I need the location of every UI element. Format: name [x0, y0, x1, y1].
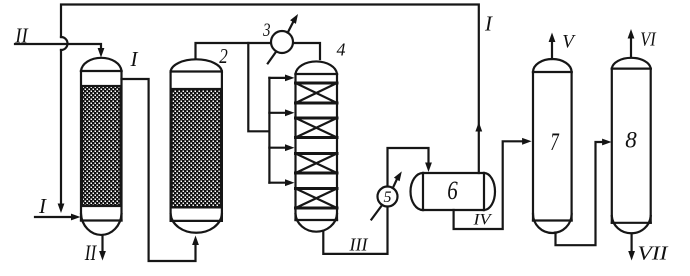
svg-text:III: III	[349, 235, 369, 255]
svg-text:V: V	[562, 32, 576, 53]
svg-text:7: 7	[550, 129, 560, 156]
wire: column 7 overhead stream V	[551, 42, 553, 59]
wire: feed branch into column 4 at y=148	[269, 147, 286, 149]
column 4 (packed column)	[296, 61, 338, 231]
wire: stream II feed line into reactor 1 top	[15, 44, 101, 49]
svg-text:II: II	[14, 24, 28, 48]
wire: feed branch into column 4 at y=183	[269, 182, 286, 184]
arrow: stream II into reactor 1 top	[98, 48, 105, 58]
svg-text:6: 6	[447, 176, 458, 205]
svg-text:4: 4	[337, 40, 346, 60]
column 4 packing section 118-138	[296, 118, 338, 138]
wire: reactor 2 top outlet to heater 3 and to column 4 top	[196, 43, 321, 59]
svg-text:5: 5	[384, 189, 392, 206]
svg-text:II: II	[84, 240, 98, 265]
svg-text:3: 3	[262, 20, 270, 41]
wire: stream I feed line into reactor 1 bottom	[35, 216, 72, 218]
arrow: feed into column 4 gap 2	[285, 109, 295, 116]
wire: column 7 bottom outlet to column 8	[556, 142, 603, 245]
arrow: stream V out of column 7 top	[549, 33, 556, 43]
reactor 2 vessel	[171, 59, 222, 232]
wire: branch line down to column 4 feed manifold	[248, 43, 269, 131]
arrow: inlet into separator 6 top	[425, 163, 432, 173]
arrow: recycle line down into stream I feed	[58, 204, 65, 214]
arrow: feed into column 4 gap 4	[285, 179, 295, 186]
arrow: pump 5 diagonal arrow tip	[394, 171, 402, 181]
svg-text:2: 2	[219, 44, 228, 68]
svg-text:VI: VI	[640, 29, 657, 51]
wire: reactor 1 top outlet down and to reactor 2 bottom inlet	[122, 79, 196, 261]
arrow: inlet into reactor 2 bottom	[192, 236, 199, 246]
wire: separator 6 bottom outlet (stream IV) to column 7	[454, 141, 523, 229]
arrow: stream VI out of column 8 top	[628, 29, 635, 39]
wire: column 8 overhead stream VI	[630, 39, 632, 58]
pump 5 (circle with diagonal arrow)	[371, 179, 397, 220]
arrow: stream VII out of column 8 bottom	[628, 251, 635, 261]
column 8	[612, 58, 651, 233]
wire: feed branch into column 4 at y=78	[269, 77, 286, 79]
arrow: inlet into column 8	[602, 139, 612, 146]
svg-text:VII: VII	[638, 243, 670, 265]
svg-text:I: I	[484, 12, 493, 36]
svg-text:I: I	[38, 194, 47, 218]
wire: column 8 bottom outlet stream VII	[630, 235, 632, 251]
column 7	[533, 59, 572, 233]
heater 3 (circle with diagonal arrow)	[268, 22, 294, 64]
column 4 packing section 188-208	[296, 189, 338, 209]
arrow: stream IV into column 7	[522, 138, 532, 145]
svg-text:IV: IV	[472, 212, 493, 229]
svg-text:I: I	[130, 47, 139, 71]
column 4 packing section 83-103	[296, 83, 338, 103]
svg-text:8: 8	[625, 128, 637, 153]
arrow: feed into column 4 gap 3	[285, 144, 295, 151]
wire: feed branch into column 4 at y=113	[269, 112, 286, 114]
wire: recycle line I from separator 6 top, up and across to left, down to feed point	[61, 5, 479, 174]
wire: reactor 1 bottom outlet (stream II)	[101, 237, 103, 252]
column 4 packing section 154-173	[296, 154, 338, 174]
arrow: stream I into reactor 1 bottom side	[71, 214, 81, 221]
arrow: feed into column 4 gap 1	[285, 75, 295, 82]
wire: column 4 bottom outlet (stream III) to pump 5 and separator 6	[323, 148, 428, 254]
wire: line hop where recycle line crosses stream II line	[61, 37, 68, 50]
separator drum 6	[411, 173, 496, 210]
reactor 1 vessel	[81, 58, 122, 235]
arrow: heater 3 diagonal arrow tip	[290, 14, 298, 24]
arrow: stream II out of reactor 1 bottom	[99, 251, 106, 261]
arrow: up arrow on recycle riser from separator 6	[475, 122, 482, 132]
wire: column 4 feed manifold	[268, 78, 270, 183]
